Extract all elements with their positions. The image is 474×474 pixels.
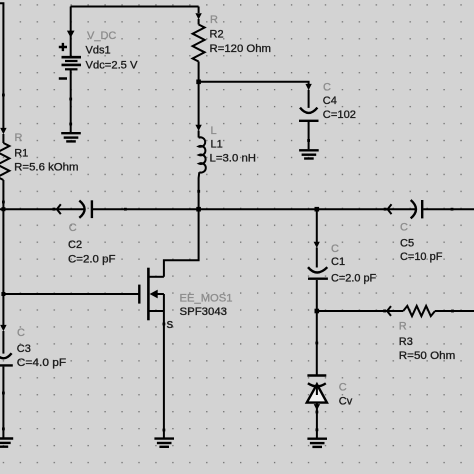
svg-text:R3: R3 [399,336,413,348]
wire R2 drop [198,7,200,14]
svg-text:R1: R1 [14,147,28,159]
label R type R1 [15,132,23,144]
svg-text:C=4.0 pF: C=4.0 pF [17,357,67,369]
label C5 [400,238,414,250]
node pin dot battery ground [69,123,72,126]
label EE_MOS1 [180,293,233,305]
label C type C1 [331,243,339,255]
label R=50 Ohm [399,350,456,362]
wire R3 line left [317,310,403,312]
label C type C4 [323,82,331,94]
svg-text:C4: C4 [323,95,337,107]
ground C4 [299,141,319,159]
wire Cv drop [316,311,318,343]
wire L1 to main line [198,191,200,209]
node junction R2 / C4 wire [196,80,201,85]
capacitor C2 [53,200,92,218]
label L1 [211,138,223,150]
wire Cv to ground [316,412,318,430]
svg-text:C2: C2 [68,239,82,251]
wire left rail main line to gate line [2,209,4,294]
wire junction to C4 [199,82,309,84]
node junction left rail / gate line [1,292,5,296]
svg-text:V_DC: V_DC [87,30,116,42]
svg-text:C=10 pF: C=10 pF [400,251,443,263]
node pin dot left rail upper [2,94,5,97]
label R2 [210,28,224,40]
svg-text:C: C [323,82,331,94]
svg-text:Cv: Cv [339,396,353,408]
svg-text:C1: C1 [331,256,345,268]
label L=3.0 nH [210,153,257,165]
wire left rail to main line [2,202,4,209]
wire left rail gate to C3 [2,294,4,327]
label C4 [323,95,337,107]
node junction left rail / main line [1,207,5,211]
wire main line segment to C1 rail [199,208,317,210]
label R=5.6 kOhm [14,161,78,173]
svg-text:L: L [211,125,217,137]
label R type R3 [399,321,407,333]
wire drain rail [164,209,199,277]
node pin dot above Cv [315,342,318,345]
wire gate line [3,293,139,295]
wire C1 drop [316,209,318,242]
wire L1 drop [198,82,200,125]
wire source to ground [163,324,165,430]
ground source [154,430,174,447]
label C=2.0 pF C1 [331,272,376,284]
svg-text:SPF3043: SPF3043 [180,306,228,318]
label V_DC type [87,30,116,42]
label L type [211,125,217,137]
svg-text:R: R [15,132,23,144]
label R1 [14,147,28,159]
label R3 [399,336,413,348]
svg-text:R=5.6 kOhm: R=5.6 kOhm [14,161,78,173]
label C type C2 [69,222,77,234]
svg-text:C: C [400,221,408,233]
capacitor C5 [384,200,423,218]
node pin dot left ground [2,428,5,431]
label C=102 [323,109,356,121]
label C=4.0 pF [17,357,67,369]
node pin dot below Cv [316,411,319,414]
wire battery to ground [70,99,72,124]
svg-text:R=50 Ohm: R=50 Ohm [399,350,456,362]
node pin dot R3 right [451,310,454,313]
wire main line left segment [0,208,85,210]
wire top rail [71,6,199,8]
node pin dot source [163,323,166,326]
label C type C3 [17,327,25,339]
node pin dot battery minus [69,98,72,101]
V_DC source Vds1 [59,31,81,99]
ground battery [61,124,81,141]
svg-text:Vdc=2.5 V: Vdc=2.5 V [86,60,139,72]
svg-text:R2: R2 [210,28,224,40]
svg-text:C5: C5 [400,238,414,250]
capacitor C1 [308,242,328,311]
label C type C5 [400,221,408,233]
svg-text:C=2.0 pF: C=2.0 pF [68,254,116,266]
svg-text:C: C [339,382,347,394]
label R=120 Ohm [210,43,272,55]
label C type Cv [339,382,347,394]
varactor diode Cv [307,343,327,412]
node pin dot Cv ground [316,428,319,431]
label C=10 pF [400,251,443,263]
svg-text:R=120 Ohm: R=120 Ohm [210,43,272,55]
label C2 [68,239,82,251]
node pin dot below C3 [2,392,5,395]
wire main line segment to C5 [317,208,416,210]
svg-text:s: s [167,316,174,331]
label Cv [339,396,353,408]
ground Cv [307,430,327,447]
label s pin [167,316,174,331]
svg-text:C3: C3 [17,343,31,355]
node junction main line / L1 / drain rail [196,207,201,212]
label Vds1 [86,45,111,57]
label SPF3043 [180,306,228,318]
ground left rail [0,429,13,447]
svg-text:R: R [210,14,218,26]
label C3 [17,343,31,355]
svg-text:C=2.0 pF: C=2.0 pF [331,272,376,284]
label C1 [331,256,345,268]
svg-text:C: C [69,222,77,234]
wire left rail top tick [0,3,3,130]
resistor R1 [0,128,9,202]
wire left rail to ground [2,393,4,429]
svg-text:L=3.0 nH: L=3.0 nH [210,153,257,165]
wire main line middle segment [93,208,199,210]
wire main line right segment [423,208,474,210]
inductor L1 [195,125,205,192]
node junction main line / C1 rail [315,207,320,212]
resistor R2 [193,13,205,82]
svg-text:C=102: C=102 [323,109,356,121]
svg-text:Vds1: Vds1 [86,45,111,57]
wire R3 line right [435,310,474,312]
node pin dot below L1 [197,190,200,193]
capacitor C3 [0,325,13,393]
node pin dot main line right [451,208,454,211]
resistor R3 [383,306,435,316]
label Vdc=2.5 V [86,60,139,72]
svg-text:C: C [17,327,25,339]
capacitor C4 [299,84,319,141]
svg-text:L1: L1 [211,138,223,150]
transistor EE_MOS1 SPF3043 [139,268,164,324]
label C=2.0 pF [68,254,116,266]
node pin dot below R1 [2,201,5,204]
node junction C1 / R3 / Cv [315,309,320,314]
node pin dot source ground [163,429,166,432]
node pin dot below C4 [307,139,310,142]
svg-text:C: C [331,243,339,255]
svg-text:R: R [399,321,407,333]
label R type R2 [210,14,218,26]
node pin dot main line after C2 [124,208,127,211]
svg-text:EE_MOS1: EE_MOS1 [180,293,233,305]
wire battery drop [70,7,72,32]
